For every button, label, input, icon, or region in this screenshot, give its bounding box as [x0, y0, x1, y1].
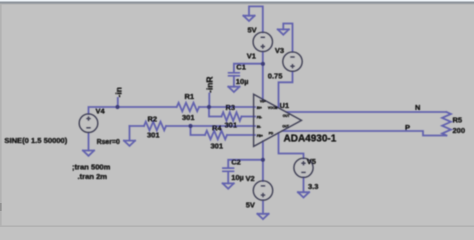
svg-text:3.3: 3.3: [308, 182, 318, 191]
svg-text:5V: 5V: [246, 201, 255, 210]
svg-text:IN+: IN+: [257, 106, 262, 110]
svg-text:V1: V1: [247, 51, 256, 60]
svg-text:PD: PD: [269, 131, 274, 135]
svg-text:R1: R1: [185, 92, 195, 101]
svg-text:-in: -in: [114, 87, 124, 97]
svg-text:C1: C1: [236, 62, 246, 71]
svg-text:R3: R3: [226, 103, 236, 112]
svg-text:U1: U1: [280, 101, 290, 110]
svg-text:V5: V5: [307, 157, 316, 166]
svg-text:;tran 500m: ;tran 500m: [72, 163, 111, 172]
svg-text:10µ: 10µ: [231, 173, 244, 182]
svg-text:200: 200: [453, 126, 466, 135]
svg-text:0.75: 0.75: [268, 71, 283, 80]
svg-text:5V: 5V: [248, 26, 257, 35]
svg-text:SINE(0 1.5 50000): SINE(0 1.5 50000): [4, 136, 67, 145]
svg-text:Rser=0: Rser=0: [97, 139, 120, 146]
svg-text:10µ: 10µ: [236, 77, 249, 86]
svg-text:N: N: [415, 103, 420, 112]
svg-text:C2: C2: [231, 158, 241, 167]
svg-text:V4: V4: [96, 107, 106, 116]
svg-text:OUT: OUT: [282, 125, 289, 129]
svg-text:P: P: [405, 123, 410, 132]
svg-text:.tran 2m: .tran 2m: [78, 172, 108, 181]
svg-text:R2: R2: [148, 115, 158, 124]
svg-text:FB+: FB+: [257, 134, 263, 138]
svg-text:V2: V2: [246, 174, 255, 183]
svg-text:-inR: -inR: [205, 76, 215, 93]
svg-text:ADA4930-1: ADA4930-1: [284, 134, 337, 145]
svg-text:V3: V3: [275, 46, 284, 55]
svg-text:IN-: IN-: [257, 125, 261, 129]
svg-text:301: 301: [211, 141, 224, 150]
svg-text:VOCM: VOCM: [268, 106, 278, 110]
svg-text:301: 301: [225, 121, 238, 130]
svg-text:301: 301: [147, 130, 160, 139]
svg-text:301: 301: [182, 113, 195, 122]
svg-text:OUT: OUT: [283, 114, 290, 118]
svg-text:R4: R4: [212, 124, 222, 133]
svg-text:R5: R5: [453, 115, 463, 124]
svg-text:VS+: VS+: [260, 100, 266, 104]
svg-text:FB-: FB-: [257, 115, 262, 119]
